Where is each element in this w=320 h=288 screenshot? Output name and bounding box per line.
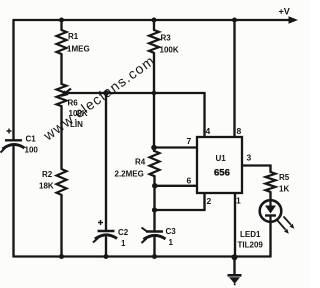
svg-text:TIL209: TIL209 (238, 241, 264, 250)
svg-text:18K: 18K (39, 182, 54, 191)
wire ground stub (233, 258, 235, 275)
svg-text:656: 656 (214, 168, 230, 179)
svg-text:+V: +V (279, 7, 290, 17)
svg-text:R3: R3 (161, 34, 172, 43)
wire bottom ground rail (14, 255, 271, 257)
svg-text:C2: C2 (118, 228, 129, 237)
capacitor C1 (1, 129, 25, 153)
LED LED1 (260, 200, 282, 222)
node junction dots (59, 18, 64, 23)
svg-text:R2: R2 (42, 170, 53, 179)
wire pin 3 to R5 (243, 166, 271, 173)
svg-text:4: 4 (206, 126, 211, 136)
wire left column (12, 20, 14, 257)
svg-text:1K: 1K (279, 185, 289, 194)
wire R3-R4-C3 column (153, 20, 156, 257)
svg-text:6: 6 (187, 176, 192, 186)
svg-text:R5: R5 (279, 173, 290, 182)
svg-text:R4: R4 (135, 158, 146, 167)
potentiometer R6 (57, 84, 67, 106)
svg-text:LED1: LED1 (240, 230, 261, 239)
svg-text:U1: U1 (216, 154, 227, 163)
svg-text:R1: R1 (68, 32, 79, 41)
svg-text:1: 1 (121, 239, 126, 248)
svg-text:C3: C3 (166, 227, 177, 236)
capacitor C3 (142, 228, 166, 244)
wire top +V rail (14, 19, 291, 21)
svg-text:2.2MEG: 2.2MEG (115, 170, 144, 179)
svg-text:100K: 100K (160, 46, 179, 55)
wire R6 wiper to pin 4 (65, 93, 205, 137)
wire pin 2 (155, 193, 205, 210)
wire LED to rail (269, 222, 271, 257)
op-amp U1 555 timer box (197, 137, 242, 193)
ground (228, 274, 242, 277)
+V arrow (289, 16, 299, 23)
wire pin 6 (155, 185, 197, 187)
wire pin 8 column (233, 20, 235, 137)
svg-text:C1: C1 (26, 135, 37, 144)
resistor R3 (149, 30, 159, 53)
svg-text:8: 8 (237, 126, 242, 136)
resistor R4 (150, 151, 160, 176)
wire C2 column (105, 93, 107, 257)
wire R1-R6-R2 column (60, 20, 62, 257)
resistor R5 (266, 172, 276, 192)
resistor R1 (57, 30, 67, 54)
svg-text:1: 1 (169, 238, 174, 247)
svg-text:1MEG: 1MEG (67, 45, 90, 54)
wire pin 7 (154, 146, 197, 148)
wire pin 1 column (234, 193, 236, 257)
resistor R2 (57, 169, 67, 195)
svg-text:1: 1 (236, 196, 241, 206)
svg-text:7: 7 (187, 136, 192, 146)
capacitor C2 (93, 220, 117, 243)
svg-text:3: 3 (247, 153, 252, 163)
svg-text:100: 100 (25, 146, 39, 155)
svg-text:2: 2 (207, 196, 212, 206)
wire R5 to LED (269, 192, 271, 201)
LED emission arrows (278, 221, 286, 230)
